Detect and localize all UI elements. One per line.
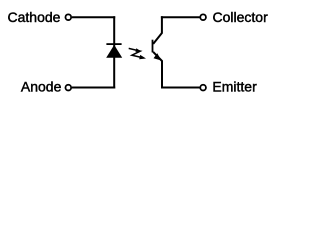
terminal circle: Anode: [65, 85, 71, 91]
transistor Q1 base bar: [152, 40, 154, 53]
wire: emitter vertical: [161, 60, 163, 88]
wire: anode rail (horizontal): [72, 87, 115, 89]
LED D1 cathode bar: [106, 43, 121, 45]
LED D1 triangle (anode, pointing up): [106, 45, 122, 58]
wire: collector diagonal from base bar: [153, 33, 162, 44]
wire: cathode rail (horizontal): [72, 16, 115, 18]
terminal circle: Cathode: [65, 14, 71, 20]
wire: collector vertical: [161, 16, 163, 33]
light arrow head (middle): [136, 48, 142, 52]
svg-text:Emitter: Emitter: [212, 79, 257, 95]
svg-text:Cathode: Cathode: [8, 9, 61, 25]
wire: emitter rail (horizontal): [161, 87, 200, 89]
wire: emitter diagonal from base bar: [153, 52, 162, 61]
transistor Q1 emitter arrowhead: [154, 53, 162, 60]
wire: collector rail (horizontal): [161, 16, 200, 18]
svg-text:Anode: Anode: [21, 79, 62, 95]
terminal circle: Emitter: [200, 85, 206, 91]
light arrow (zigzag) shaft: [129, 48, 144, 58]
terminal circle: Collector: [200, 14, 206, 20]
wire: LED vertical (cathode corner to anode corner): [113, 16, 115, 88]
light arrow head (tip): [139, 55, 146, 59]
svg-text:Collector: Collector: [213, 9, 269, 25]
